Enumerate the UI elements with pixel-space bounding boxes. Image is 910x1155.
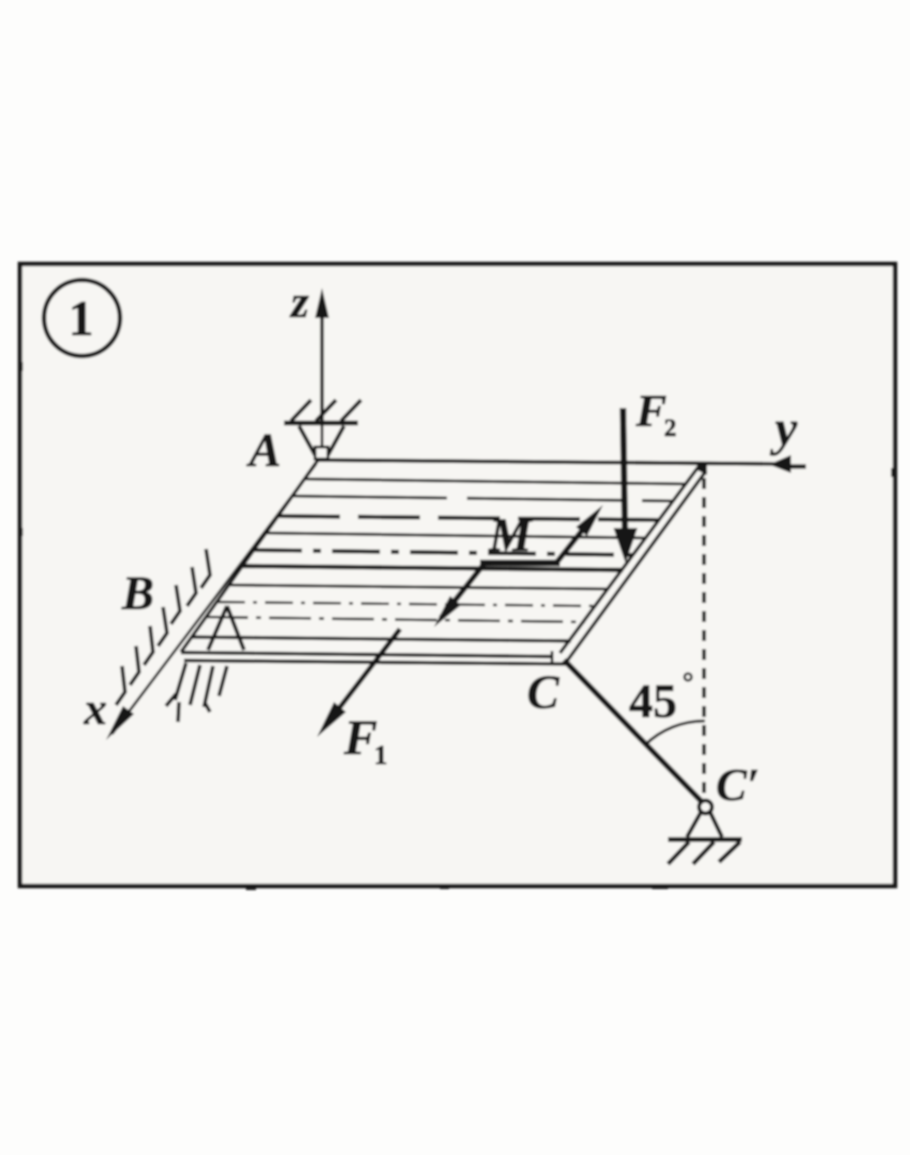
svg-text:F: F [343, 709, 377, 765]
svg-text:C: C [527, 666, 560, 719]
z axis [320, 296, 324, 423]
moment M upper diagonal [557, 518, 592, 562]
frame interior tint [22, 266, 893, 884]
plate interior line 9 [206, 617, 585, 622]
plate interior line 1 [305, 479, 687, 484]
plate interior line 4 [266, 533, 647, 538]
svg-text:B: B [121, 567, 154, 620]
svg-text:z: z [289, 276, 309, 327]
x axis [112, 464, 316, 734]
45 degree arc [645, 721, 705, 745]
F2 arrowhead [614, 528, 638, 563]
moment M lower arrowhead [434, 596, 461, 627]
frame border [20, 264, 895, 886]
support A cone tip square [315, 447, 328, 459]
plate interior line 7 [229, 585, 609, 589]
plate interior line 5 [254, 550, 635, 555]
svg-text:x: x [83, 683, 107, 734]
support B cone [208, 606, 244, 650]
pin support base bar [668, 837, 742, 842]
svg-text:1: 1 [374, 740, 388, 770]
support B hatching upper [116, 549, 210, 705]
pin support C' circle [699, 801, 712, 814]
support A bar [284, 421, 358, 426]
plate interior line 2 [292, 496, 674, 501]
plate interior line 8 [217, 602, 597, 606]
plate interior line 6 [243, 566, 623, 570]
support A cone [299, 426, 344, 455]
corner blob top-right [697, 464, 707, 475]
svg-text:M: M [488, 509, 534, 562]
svg-text:1: 1 [69, 290, 94, 346]
plate left edge [181, 460, 318, 652]
z line through cone [321, 423, 324, 447]
force F1 [327, 629, 400, 724]
pin support hatching [668, 842, 740, 864]
degree mark [685, 674, 692, 681]
F1 arrowhead [317, 702, 346, 737]
pin support triangle [687, 812, 722, 837]
moment M lower diagonal [441, 564, 484, 618]
support B hatching lower [166, 663, 227, 722]
svg-text:A: A [246, 424, 281, 477]
plate right edge outer [567, 471, 706, 661]
svg-text:45: 45 [629, 675, 677, 728]
moment M upper arrowhead [576, 505, 603, 536]
plate interior line 10 [192, 637, 571, 641]
svg-text:F: F [635, 385, 667, 436]
svg-text:2: 2 [664, 415, 677, 442]
svg-text:C′: C′ [716, 759, 760, 810]
force F2 shaft [623, 408, 625, 536]
figure number circle [44, 280, 120, 356]
y axis stub [786, 464, 806, 469]
x axis arrowhead [106, 706, 134, 740]
plate bottom edge outer [184, 661, 567, 665]
moment M bar [480, 560, 560, 567]
plate top edge + y axis line [318, 460, 788, 464]
plate interior line 3 [278, 516, 660, 520]
plate bottom edge inner [181, 653, 551, 657]
rod C to C' [564, 660, 701, 801]
border noise marks [246, 886, 256, 890]
z axis arrowhead [315, 288, 329, 318]
support A hatching [291, 400, 361, 421]
plate right edge inner [560, 466, 699, 653]
corner tick at C notch [551, 651, 554, 664]
y axis arrowhead [769, 455, 791, 473]
svg-text:y: y [770, 400, 798, 456]
dashed vertical line [702, 478, 706, 800]
